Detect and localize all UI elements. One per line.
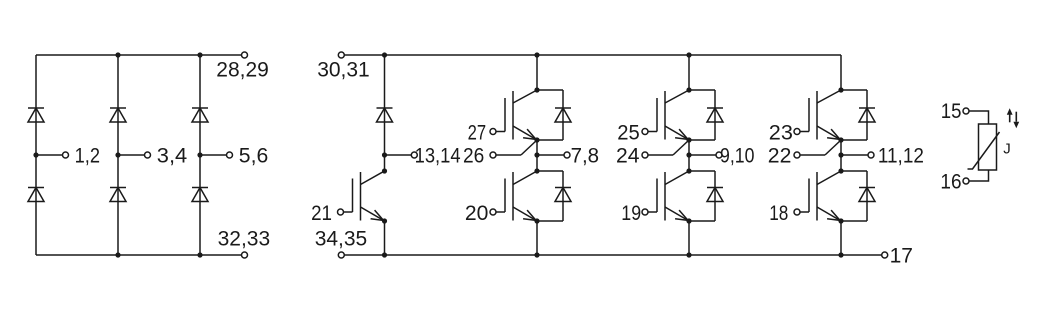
wire chopper emitter	[384, 221, 386, 255]
junction chopper emitter node	[382, 218, 387, 223]
rectifier diode lower leg 1	[28, 188, 44, 202]
wire top diode branch 7,8	[537, 89, 563, 91]
wire inverter DC- rail	[344, 254, 881, 256]
svg-text:26: 26	[463, 145, 484, 168]
wire AC stub 5,6	[200, 154, 227, 156]
terminal 32,33	[242, 252, 248, 258]
junction DC- 9,10	[686, 252, 691, 257]
terminal 19 gate	[642, 209, 648, 215]
IGBT bottom leg 9,10 (gate 19)	[648, 171, 689, 221]
freewheel diode bottom leg 11,12	[859, 188, 875, 202]
wire aux emitter 26	[496, 154, 521, 156]
svg-text:34,35: 34,35	[315, 228, 368, 251]
svg-text:30,31: 30,31	[317, 59, 370, 82]
junction leg 7,8 DC+	[534, 52, 539, 57]
junction bottom collector 7,8	[534, 168, 539, 173]
junction bottom collector 11,12	[838, 168, 843, 173]
wire phase link 9,10	[688, 140, 690, 171]
IGBT top leg 9,10 (gate 25)	[648, 90, 689, 140]
svg-text:7,8: 7,8	[571, 145, 600, 168]
rectifier diode upper leg 1	[28, 108, 44, 122]
svg-text:19: 19	[621, 202, 641, 225]
junction node 5,6	[197, 152, 202, 157]
svg-text:20: 20	[465, 202, 489, 225]
chopper IGBT (pin 21)	[344, 171, 385, 221]
svg-text:5,6: 5,6	[239, 145, 268, 168]
wire phase stub 9,10	[689, 154, 716, 156]
terminal 28,29	[242, 52, 248, 58]
svg-text:24: 24	[616, 145, 640, 168]
wire thermistor top lead	[969, 111, 989, 124]
wire bottom emitter drop 11,12	[840, 221, 842, 255]
wire top diode branch 11,12	[841, 89, 867, 91]
thermistor body	[979, 124, 997, 170]
terminal 25 gate	[642, 129, 648, 135]
junction chopper DC-	[382, 252, 387, 257]
svg-text:22: 22	[768, 145, 792, 168]
terminal 16	[963, 178, 969, 184]
terminal 21 gate	[338, 209, 344, 215]
svg-text:11,12: 11,12	[878, 145, 924, 168]
junction DC- 11,12	[838, 252, 843, 257]
wire phase link 11,12	[840, 140, 842, 171]
junction top emitter 11,12	[838, 137, 843, 142]
IGBT bottom leg 7,8 (gate 20)	[496, 171, 537, 221]
svg-text:1,2: 1,2	[75, 145, 100, 168]
IGBT top leg 11,12 (gate 23)	[800, 90, 841, 140]
svg-text:15: 15	[941, 100, 962, 123]
junction bottom collector 9,10	[686, 168, 691, 173]
wire inverter DC+ rail	[344, 54, 841, 56]
svg-text:9,10: 9,10	[720, 145, 754, 168]
wire rectifier leg 1 vertical	[35, 55, 37, 255]
junction chopper DC+	[382, 52, 387, 57]
wire top diode branch 9,10	[689, 89, 715, 91]
junction node 1,2	[33, 152, 38, 157]
junction top rail leg 2	[115, 52, 120, 57]
junction bottom rail leg 2	[115, 252, 120, 257]
wire bottom emitter drop 9,10	[688, 221, 690, 255]
terminal 7,8	[564, 152, 570, 158]
junction top emitter 9,10	[686, 137, 691, 142]
wire aux emitter 24	[648, 154, 673, 156]
svg-text:3,4: 3,4	[157, 145, 188, 168]
IGBT bottom leg 11,12 (gate 18)	[800, 171, 841, 221]
freewheel diode bottom leg 7,8	[555, 188, 571, 202]
terminal 18 gate	[794, 209, 800, 215]
wire leg 7,8 top drop	[536, 55, 538, 90]
junction phase node 7,8	[534, 152, 539, 157]
terminal 1,2	[63, 152, 69, 158]
junction leg 9,10 DC+	[686, 52, 691, 57]
freewheel diode top leg 11,12	[859, 108, 875, 122]
wire rectifier DC+ top rail	[36, 54, 242, 56]
junction node 13,14	[382, 152, 387, 157]
terminal 30,31	[338, 52, 344, 58]
terminal 3,4	[145, 152, 151, 158]
wire chopper collector	[384, 155, 386, 171]
svg-text:28,29: 28,29	[216, 59, 269, 82]
rectifier diode upper leg 2	[110, 108, 126, 122]
junction top emitter 7,8	[534, 137, 539, 142]
junction top collector 7,8	[534, 87, 539, 92]
svg-text:32,33: 32,33	[218, 228, 271, 251]
terminal 23 gate	[794, 129, 800, 135]
svg-text:17: 17	[890, 244, 913, 267]
rectifier diode upper leg 3	[192, 108, 208, 122]
wire rectifier leg 2 vertical	[117, 55, 119, 255]
wire stub 13,14	[385, 154, 412, 156]
svg-text:18: 18	[769, 202, 788, 225]
wire bottom emitter drop 7,8	[536, 221, 538, 255]
svg-text:16: 16	[940, 170, 961, 193]
junction bottom emitter 11,12	[838, 218, 843, 223]
terminal 26 aux emitter	[490, 152, 496, 158]
junction bottom emitter 7,8	[534, 218, 539, 223]
wire bottom diode branch 11,12	[841, 170, 867, 172]
junction top rail leg 3	[197, 52, 202, 57]
terminal 9,10	[716, 152, 722, 158]
thermistor temperature arrows	[1007, 108, 1019, 128]
wire bottom diode branch 9,10	[689, 170, 715, 172]
chopper diode	[377, 108, 393, 122]
terminal 11,12	[868, 152, 874, 158]
terminal 27 gate	[490, 129, 496, 135]
wire phase stub 7,8	[537, 154, 564, 156]
junction top collector 11,12	[838, 87, 843, 92]
wire chopper upper branch	[384, 55, 386, 155]
wire AC stub 3,4	[118, 154, 145, 156]
wire aux emitter 22	[800, 154, 825, 156]
junction chopper collector	[382, 168, 387, 173]
freewheel diode bottom leg 9,10	[707, 188, 723, 202]
terminal 34,35	[338, 252, 344, 258]
terminal 20 gate	[490, 209, 496, 215]
terminal 5,6	[227, 152, 233, 158]
junction DC- 7,8	[534, 252, 539, 257]
wire bottom diode branch 7,8	[537, 170, 563, 172]
svg-text:23: 23	[769, 122, 793, 145]
freewheel diode top leg 9,10	[707, 108, 723, 122]
junction bottom rail leg 3	[197, 252, 202, 257]
svg-text:21: 21	[311, 202, 332, 225]
wire phase link 7,8	[536, 140, 538, 171]
svg-text:27: 27	[468, 122, 487, 145]
terminal 13,14	[411, 152, 417, 158]
terminal 24 aux emitter	[642, 152, 648, 158]
terminal 15	[963, 108, 969, 114]
junction phase node 9,10	[686, 152, 691, 157]
wire thermistor bottom lead	[969, 170, 989, 181]
svg-text:J: J	[1003, 141, 1011, 158]
wire phase stub 11,12	[841, 154, 868, 156]
wire leg 9,10 top drop	[688, 55, 690, 90]
wire rectifier DC- bottom rail	[36, 254, 242, 256]
svg-text:25: 25	[617, 122, 640, 145]
junction node 3,4	[115, 152, 120, 157]
rectifier diode lower leg 3	[192, 188, 208, 202]
rectifier diode lower leg 2	[110, 188, 126, 202]
IGBT top leg 7,8 (gate 27)	[496, 90, 537, 140]
freewheel diode top leg 7,8	[555, 108, 571, 122]
junction top collector 9,10	[686, 87, 691, 92]
terminal 17	[882, 252, 888, 258]
wire leg 11,12 top drop	[840, 55, 842, 90]
wire AC stub 1,2	[36, 154, 63, 156]
svg-text:13,14: 13,14	[415, 145, 461, 168]
thermistor diagonal	[968, 132, 1000, 169]
junction phase node 11,12	[838, 152, 843, 157]
terminal 22 aux emitter	[794, 152, 800, 158]
junction bottom emitter 9,10	[686, 218, 691, 223]
wire rectifier leg 3 vertical	[199, 55, 201, 255]
